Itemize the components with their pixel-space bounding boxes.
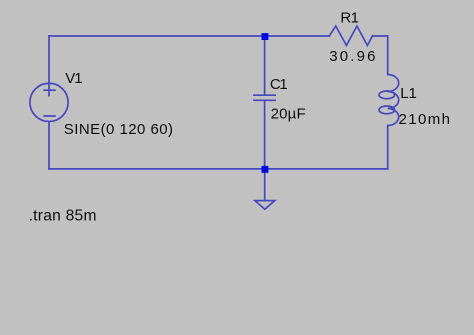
svg-text:.tran 85m: .tran 85m xyxy=(29,208,97,225)
wire bottom horizontal xyxy=(49,168,388,170)
svg-text:210mh: 210mh xyxy=(399,111,452,128)
wire right vertical upper xyxy=(387,36,389,75)
wire top right xyxy=(372,35,387,37)
capacitor C1 bottom lead xyxy=(264,100,266,169)
svg-text:20µF: 20µF xyxy=(271,105,306,122)
inductor L1 loop1 xyxy=(379,91,395,99)
junction node bottom xyxy=(262,166,269,173)
wire top horizontal xyxy=(49,35,329,37)
wire left vertical upper xyxy=(48,36,50,96)
V1 plus sign xyxy=(44,89,55,91)
capacitor C1 top lead xyxy=(264,36,266,95)
ground symbol triangle xyxy=(255,201,275,210)
ground stem wire xyxy=(264,169,266,201)
svg-text:SINE(0 120 60): SINE(0 120 60) xyxy=(64,121,174,138)
svg-text:R1: R1 xyxy=(340,10,358,27)
wire left vertical lower xyxy=(48,122,50,169)
wire right vertical lower xyxy=(387,126,389,169)
capacitor C1 bottom plate xyxy=(254,99,275,101)
V1 minus sign xyxy=(44,115,55,117)
inductor L1 coil xyxy=(388,75,399,126)
svg-text:C1: C1 xyxy=(270,76,287,93)
spice directive .tran 85m xyxy=(29,208,97,225)
svg-text:L1: L1 xyxy=(400,85,417,102)
resistor R1 xyxy=(329,26,372,46)
svg-text:V1: V1 xyxy=(65,70,82,87)
capacitor C1 top plate xyxy=(254,94,275,96)
svg-text:30.96: 30.96 xyxy=(329,48,378,65)
inductor L1 loop2 xyxy=(379,106,395,114)
voltage source V1 circle xyxy=(30,83,68,121)
junction node top xyxy=(262,33,269,40)
